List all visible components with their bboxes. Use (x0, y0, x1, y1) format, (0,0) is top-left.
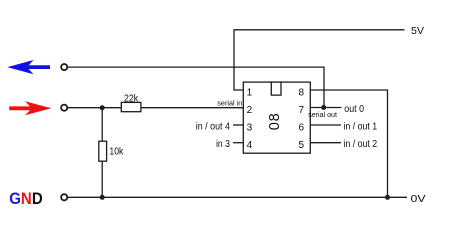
svg-text:4: 4 (247, 140, 253, 151)
svg-text:out 0: out 0 (344, 104, 364, 115)
svg-text:3: 3 (247, 122, 253, 133)
svg-text:5: 5 (298, 140, 304, 151)
svg-text:6: 6 (298, 122, 304, 133)
svg-text:7: 7 (298, 105, 304, 116)
svg-text:08: 08 (267, 113, 283, 130)
svg-text:1: 1 (247, 87, 253, 98)
svg-text:22k: 22k (124, 93, 139, 104)
svg-text:serial out: serial out (308, 110, 337, 119)
svg-text:2: 2 (247, 105, 253, 116)
svg-text:serial in: serial in (217, 98, 242, 107)
svg-text:10k: 10k (109, 146, 124, 157)
svg-text:in / out 1: in / out 1 (343, 122, 377, 133)
svg-text:in / out 4: in / out 4 (196, 122, 230, 133)
svg-text:in / out 2: in / out 2 (343, 139, 377, 150)
svg-text:8: 8 (298, 87, 304, 98)
svg-text:0V: 0V (411, 193, 426, 205)
svg-text:in 3: in 3 (216, 139, 230, 150)
svg-text:GND: GND (9, 189, 42, 208)
svg-text:5V: 5V (411, 25, 424, 37)
